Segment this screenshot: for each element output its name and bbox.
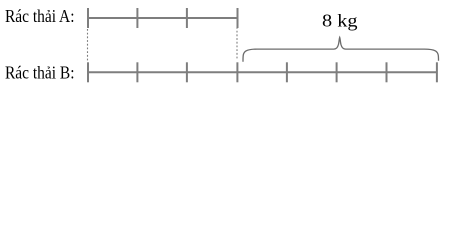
- svg-text:8 kg: 8 kg: [322, 10, 358, 30]
- svg-text:Rác thải A:: Rác thải A:: [5, 6, 75, 26]
- svg-text:Rác thải B:: Rác thải B:: [5, 63, 75, 83]
